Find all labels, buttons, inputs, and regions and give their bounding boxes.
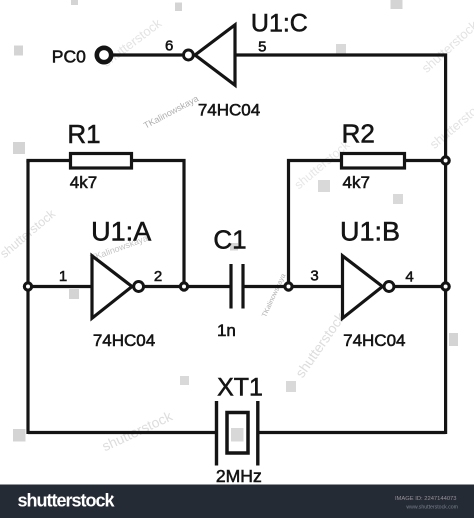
watermark text TKalinowskaya near C1 [261, 273, 287, 319]
svg-text:R2: R2 [342, 119, 375, 149]
svg-text:2MHz: 2MHz [216, 466, 262, 486]
wire R2 right side to right vertical [406, 159, 446, 162]
svg-text:2: 2 [154, 268, 162, 285]
watermark text shutterstock top-right [419, 17, 474, 75]
wire node A to U1:A input pin 1 [28, 285, 92, 288]
svg-text:TKalinowskaya: TKalinowskaya [261, 273, 287, 319]
node junction R2 right [442, 157, 449, 164]
wire PC0 to U1:C output bubble [111, 53, 182, 56]
watermark square near PC0 [14, 46, 23, 56]
watermark text shutterstock right-upper [427, 95, 474, 152]
node junction 3 [285, 283, 292, 290]
watermark text shutterstock left-middle [0, 206, 59, 261]
svg-text:shutterstock: shutterstock [99, 407, 175, 454]
watermark square below U1:A input [69, 289, 79, 299]
watermark square on top wire [336, 44, 346, 54]
inverter U1:B [343, 256, 383, 318]
watermark text TKalinowskaya above U1:A [89, 233, 149, 263]
wire U1:C input to right vertical [235, 55, 446, 161]
capacitor C1 [229, 264, 232, 309]
crystal XT1 [215, 401, 218, 466]
svg-text:C1: C1 [213, 225, 246, 255]
wire left vertical lower segment [26, 287, 29, 435]
wire left vertical upper segment [26, 161, 29, 287]
wire U1:A output pin 2 to C1 left plate [143, 285, 231, 288]
inverter U1:C (points left) [195, 25, 235, 85]
wire R1 right side down to node 2 [133, 161, 184, 287]
watermark text shutterstock mid-right [292, 309, 349, 381]
svg-text:74HC04: 74HC04 [343, 331, 405, 350]
watermark square top edge 3 [391, 0, 403, 9]
node junction 4 right vertical [442, 283, 449, 290]
svg-text:IMAGE ID: 2247144073: IMAGE ID: 2247144073 [395, 496, 457, 502]
svg-text:4k7: 4k7 [70, 173, 97, 192]
svg-text:U1:A: U1:A [91, 217, 151, 247]
watermark square top edge 2 [175, 3, 182, 12]
svg-text:shutterstock: shutterstock [18, 491, 116, 511]
svg-text:PC0: PC0 [52, 47, 86, 67]
svg-text:1n: 1n [217, 321, 236, 340]
terminal PC0 [97, 48, 111, 62]
svg-text:6: 6 [165, 38, 173, 55]
svg-text:TKalinowskaya: TKalinowskaya [142, 93, 200, 130]
svg-text:U1:C: U1:C [251, 10, 308, 38]
svg-text:4: 4 [405, 269, 413, 286]
svg-text:5: 5 [258, 39, 266, 56]
svg-text:XT1: XT1 [217, 374, 263, 402]
watermark square right of XT1 [286, 381, 296, 392]
wire XT1 to bottom right [258, 431, 446, 434]
wire right vertical lower segment [444, 287, 447, 435]
footer bar [0, 485, 474, 518]
svg-text:3: 3 [310, 268, 318, 285]
svg-text:shutterstock: shutterstock [427, 95, 474, 152]
svg-text:74HC04: 74HC04 [93, 331, 155, 350]
svg-text:U1:B: U1:B [340, 217, 400, 247]
node junction left (node 1) [24, 283, 31, 290]
wire C1 right plate to U1:B input pin 3 [243, 285, 343, 288]
wire U1:B output pin 4 to right vertical [395, 285, 446, 288]
watermark text TKalinowskaya upper [142, 93, 200, 130]
watermark square below R2 [393, 194, 403, 204]
node junction 2 [180, 283, 187, 290]
watermark square bottom-left corner [13, 429, 26, 442]
svg-text:R1: R1 [67, 119, 100, 149]
wire bottom left to XT1 [28, 431, 217, 434]
svg-text:1: 1 [59, 268, 67, 285]
watermark square top edge 1 [71, 0, 78, 5]
watermark text shutterstock near R2 [292, 137, 353, 192]
watermark text shutterstock top-left [99, 15, 164, 69]
watermark square left of XT1 [180, 376, 189, 385]
wire left vertical from R1 row to U1:A input [28, 161, 69, 163]
inverter U1:A [92, 256, 132, 318]
watermark square right of 74HC04 B [449, 333, 458, 346]
resistor R1 [71, 154, 132, 169]
watermark text shutterstock bottom-left [99, 407, 175, 454]
wire R2 left side down to node 3 [289, 161, 341, 287]
watermark square inside crystal [231, 428, 244, 442]
svg-text:www.shutterstock.com: www.shutterstock.com [406, 505, 458, 511]
wire right vertical middle segment [444, 161, 447, 287]
watermark square left of R1 [13, 142, 25, 154]
resistor R2 [342, 154, 405, 169]
svg-text:4k7: 4k7 [342, 173, 369, 192]
watermark square on C1 label [230, 243, 238, 251]
watermark square on wire near R2 [318, 180, 330, 192]
svg-text:74HC04: 74HC04 [198, 101, 260, 120]
svg-text:shutterstock: shutterstock [292, 309, 349, 381]
